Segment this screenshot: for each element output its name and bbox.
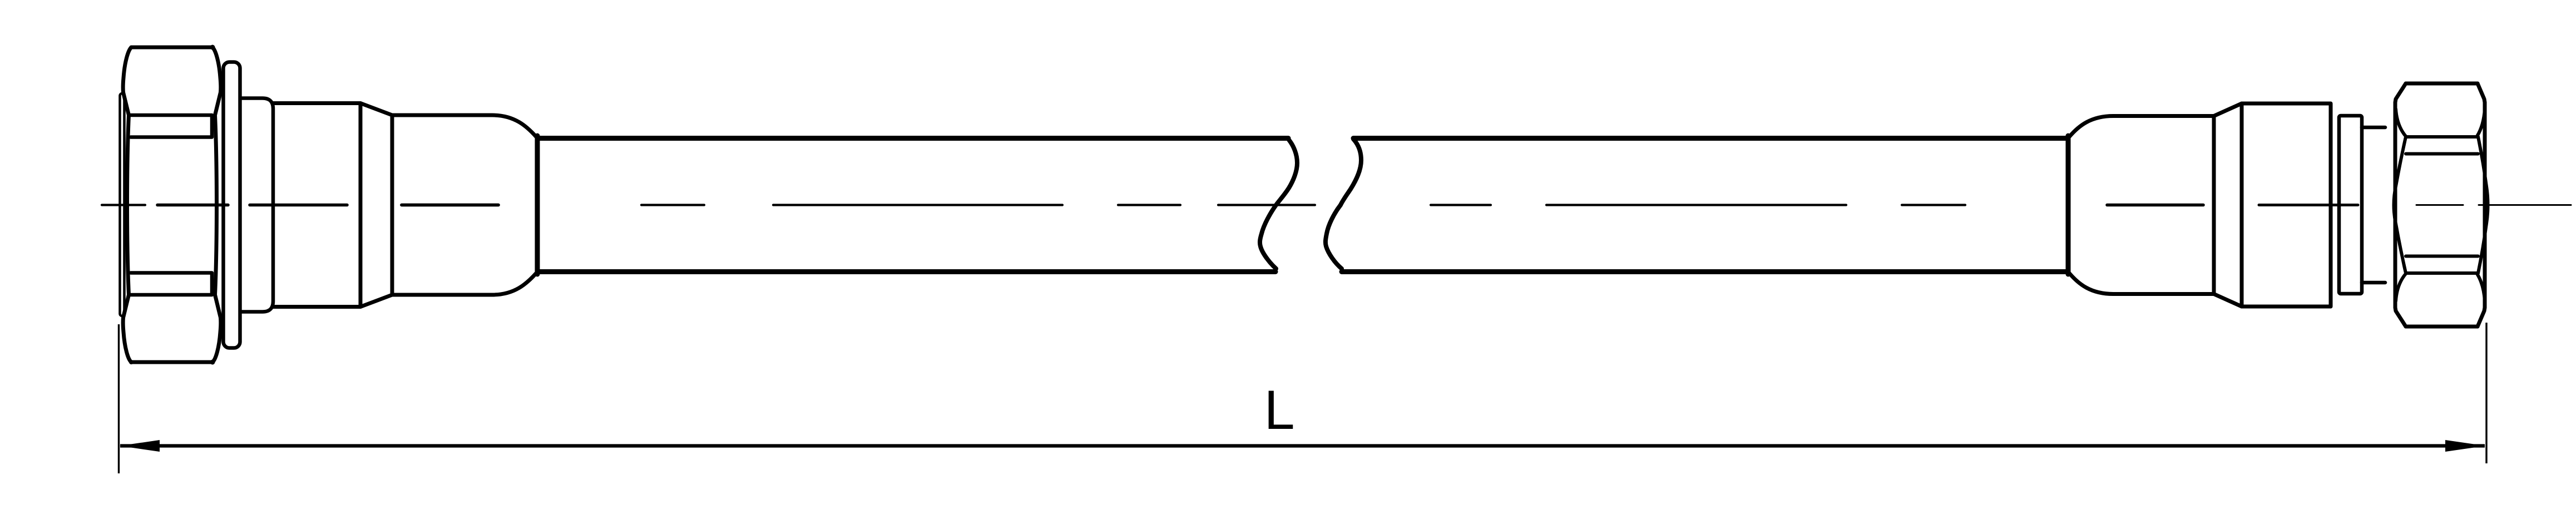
extension line right (2485, 323, 2487, 463)
extension line left (118, 324, 120, 473)
union nut N1 lower face band (129, 273, 212, 295)
wire: axis dash 8 (1218, 204, 1315, 206)
union nut N1 left silhouette (123, 47, 131, 362)
socket S2 (2242, 103, 2331, 306)
cone shoulder K1 (360, 103, 392, 307)
hose segment 2 top line (1353, 136, 2068, 141)
hex nut N2 bottom right face arc (2477, 274, 2485, 301)
hex nut N2 left silhouette (2395, 83, 2406, 327)
hose segment 1 bottom line (537, 269, 1275, 274)
flange ring F1 (224, 62, 240, 348)
hex nut N2 top left face arc (2396, 109, 2406, 136)
union nut N1 right silhouette (212, 47, 221, 362)
hex nut N2 top right face arc (2477, 109, 2485, 136)
wire: axis dash 6 (773, 204, 1062, 206)
bell mouth B1 (392, 115, 536, 295)
socket S1 (273, 103, 360, 307)
union nut N1 bottom edge (131, 360, 212, 364)
union nut N1 top edge (131, 46, 212, 50)
arrowhead right (2445, 440, 2485, 452)
svg-text:L: L (1264, 379, 1294, 441)
wire: axis dash 1 (102, 204, 145, 206)
wire: axis dash 7 (1118, 204, 1180, 206)
hex nut N2 bottom left face arc (2396, 274, 2406, 301)
collar C2 (2339, 116, 2362, 294)
wire: axis dash 10 (1546, 204, 1846, 206)
hose break line left (1260, 139, 1297, 269)
cone shoulder K2 (2214, 103, 2242, 306)
left fitting (120, 45, 538, 365)
neck spacer C3 (2362, 127, 2385, 283)
wire: axis dash 5 (641, 204, 704, 206)
hex nut N2 upper band (2406, 137, 2478, 154)
hex nut N2 right silhouette (2478, 83, 2485, 327)
collar C1 (241, 98, 273, 312)
wire: axis dash 2 (157, 204, 228, 207)
wire: axis dash 11 (1902, 204, 1965, 206)
wire: axis dash 13 (2259, 204, 2358, 206)
hose segment 2 bottom line (1342, 269, 2068, 274)
right fitting (2068, 83, 2488, 327)
hex nut N2 right face bulge (2478, 137, 2488, 273)
sealing washer W1 (left end) (120, 93, 125, 316)
hex nut N2 lower band (2406, 256, 2478, 274)
centerline (axis) dash-dot segments (102, 204, 2571, 206)
hex nut N2 top edge (2406, 82, 2478, 86)
dimension annotation (119, 323, 2487, 473)
arrowhead left (120, 440, 160, 452)
wire: axis dash 3 (250, 204, 347, 207)
hex nut N2 bottom edge (2406, 325, 2478, 329)
hose break line right (1326, 139, 1361, 269)
dimension line L (120, 444, 2485, 447)
wire: axis dash 12 (2107, 204, 2203, 207)
hose segment 1 top line (537, 136, 1288, 141)
bell mouth B2 (2069, 116, 2214, 294)
hose (537, 139, 2068, 272)
union nut N1 corner dot bottom left (129, 360, 134, 364)
wire: axis dash 9 (1431, 204, 1491, 206)
wire: axis dash 14 (2416, 204, 2463, 206)
wire: axis dash 4 (402, 204, 498, 207)
wire: axis dash 15 (2479, 204, 2571, 206)
union nut N1 corner dot bottom right (210, 360, 215, 365)
hose end cap right (2066, 136, 2071, 274)
hose end cap left (535, 136, 540, 274)
hex nut N2 left face bulge (2394, 137, 2406, 273)
union nut N1 upper face band (129, 115, 212, 137)
union nut N1 corner dot top right (210, 45, 215, 50)
